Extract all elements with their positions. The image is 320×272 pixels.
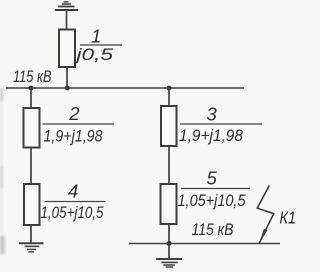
- system source symbol (top ground, flipped): [55, 2, 78, 10]
- svg-text:4: 4: [68, 181, 78, 202]
- wire bus to X2: [30, 88, 32, 108]
- wire X2 to X4: [30, 148, 32, 185]
- wire X4 to ground: [30, 225, 32, 243]
- bottom bus 115 kV: [129, 243, 280, 245]
- ground bottom right: [156, 259, 182, 267]
- fraction bar 4: [45, 201, 106, 203]
- wire source to X1: [66, 10, 68, 30]
- svg-text:1: 1: [91, 26, 101, 47]
- fault K1 lightning arrow: [257, 186, 274, 244]
- svg-text:2: 2: [68, 103, 80, 124]
- reactance X2 (element 2): [24, 108, 40, 148]
- top bus 115 kV: [6, 87, 244, 89]
- ground left: [19, 243, 44, 252]
- svg-text:115 кВ: 115 кВ: [13, 67, 52, 86]
- scan shadow left edge: [0, 88, 5, 256]
- svg-text:1,05+j10,5: 1,05+j10,5: [178, 191, 246, 210]
- reactance X1 (element 1): [59, 30, 75, 68]
- svg-text:115 кВ: 115 кВ: [192, 220, 234, 239]
- svg-text:1,9+j1,98: 1,9+j1,98: [179, 126, 243, 145]
- fraction bar 5: [181, 188, 250, 190]
- wire bus to ground: [168, 244, 170, 260]
- wire bus to X3: [168, 88, 170, 106]
- wire X5 to bottom bus: [168, 224, 170, 244]
- node dot left branch: [29, 86, 34, 91]
- arrowhead K1: [259, 229, 267, 244]
- svg-text:3: 3: [207, 104, 218, 125]
- svg-text:1,05+j10,5: 1,05+j10,5: [41, 203, 104, 222]
- fraction bar 3: [180, 123, 262, 125]
- svg-text:5: 5: [207, 168, 218, 189]
- reactance X5 (element 5): [161, 184, 177, 224]
- fraction bar 2: [43, 123, 114, 125]
- fraction bar 1: [80, 44, 122, 46]
- svg-text:К1: К1: [280, 208, 297, 228]
- node dot: [65, 86, 70, 91]
- reactance X4 (element 4): [24, 184, 40, 225]
- node dot bottom: [167, 241, 172, 246]
- svg-text:1,9+j1,98: 1,9+j1,98: [44, 127, 103, 146]
- wire X1 to bus: [66, 67, 68, 88]
- wire X3 to X5: [168, 146, 170, 184]
- svg-text:j0,5: j0,5: [74, 45, 114, 64]
- node dot right branch: [167, 86, 172, 91]
- reactance X3 (element 3): [161, 106, 177, 146]
